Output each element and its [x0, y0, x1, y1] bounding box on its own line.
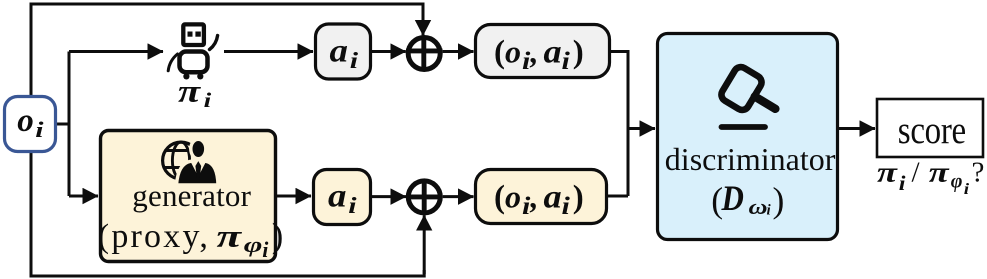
svg-text:): ) [573, 34, 584, 70]
svg-text:i: i [522, 191, 531, 219]
svg-text:(: ( [494, 179, 505, 215]
svg-text:i: i [899, 171, 906, 194]
svg-text:i: i [262, 237, 269, 262]
svg-text:(proxy,: (proxy, [98, 218, 210, 255]
svg-text:generator: generator [132, 178, 251, 213]
svg-text:φ: φ [244, 233, 263, 257]
svg-text:ω: ω [749, 196, 768, 219]
svg-text:/: / [912, 156, 921, 188]
svg-text:(: ( [494, 34, 505, 70]
svg-text:): ) [272, 217, 284, 255]
svg-text:π: π [178, 74, 201, 109]
svg-text:i: i [964, 179, 969, 197]
svg-text:i: i [562, 46, 571, 74]
svg-text:φ: φ [951, 171, 963, 193]
svg-text:π: π [929, 157, 950, 188]
svg-text:o: o [505, 179, 521, 215]
svg-text:o: o [505, 34, 521, 70]
svg-text:i: i [562, 191, 571, 219]
svg-text:a: a [544, 33, 562, 70]
svg-text:a: a [330, 32, 348, 69]
svg-text:i: i [350, 48, 359, 74]
svg-text:i: i [35, 117, 44, 141]
svg-text:discriminator: discriminator [665, 141, 836, 177]
svg-text:?: ? [972, 156, 985, 188]
svg-text:,: , [530, 179, 539, 215]
svg-text:π: π [217, 219, 244, 254]
svg-text:a: a [328, 177, 346, 214]
svg-text:π: π [877, 157, 898, 188]
svg-text:i: i [204, 89, 212, 112]
svg-text:score: score [898, 108, 966, 151]
svg-text:o: o [17, 103, 34, 139]
svg-text:): ) [573, 179, 584, 215]
svg-text:i: i [348, 193, 357, 219]
svg-text:i: i [522, 46, 531, 74]
svg-text:D: D [721, 179, 744, 218]
svg-text:,: , [530, 34, 539, 70]
svg-text:a: a [544, 178, 562, 215]
svg-text:): ) [773, 180, 785, 220]
